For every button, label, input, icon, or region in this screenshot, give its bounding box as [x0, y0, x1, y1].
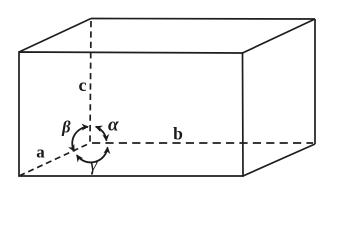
angle arc gamma (between a and b) [77, 147, 108, 162]
wire bottom-right depth edge C-G [243, 144, 315, 176]
svg-text:c: c [79, 75, 87, 95]
angle arc alpha (between c and b) [96, 127, 107, 141]
svg-text:b: b [173, 124, 183, 144]
wire top-right depth edge B-F [243, 19, 316, 53]
svg-text:α: α [108, 115, 119, 136]
svg-text:β: β [61, 118, 71, 137]
wire hidden edge a (H-D) dashed [20, 145, 87, 176]
svg-text:a: a [36, 143, 45, 162]
angle arc beta (between c and a) [72, 127, 88, 151]
wire top back edge E-F [91, 18, 315, 21]
wire front face outline (edges A-B-C-D) [19, 52, 243, 176]
wire hidden edge c (E-H) dashed [90, 21, 91, 143]
wire back-right vertical edge F-G [314, 19, 316, 144]
svg-text:γ: γ [90, 155, 98, 176]
wire top-left depth edge A-E [19, 19, 91, 53]
wire hidden edge b (H-G) dashed [92, 142, 313, 144]
